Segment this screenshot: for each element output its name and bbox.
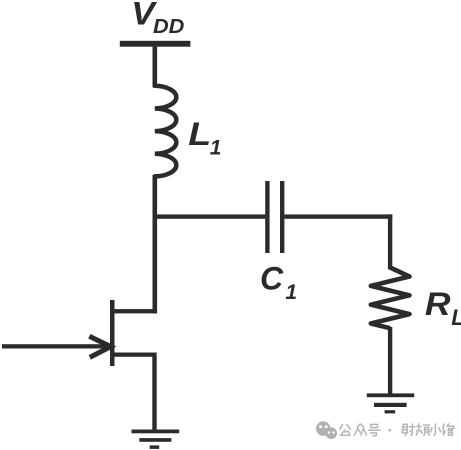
svg-text:L: L <box>188 117 211 153</box>
wire node to capacitor <box>154 214 265 218</box>
glyph 公 <box>340 425 351 436</box>
wire VDD bar to inductor <box>153 47 158 88</box>
node VDD label <box>131 0 184 38</box>
wire source to ground <box>152 353 156 432</box>
label RL <box>425 287 461 330</box>
transistor Q1 channel bar <box>110 300 115 366</box>
inductor L1 <box>155 86 177 177</box>
svg-text:1: 1 <box>210 136 222 159</box>
wire corner down to resistor <box>388 214 392 269</box>
wire inductor to drain corner <box>153 175 158 313</box>
glyph 小 <box>430 424 441 436</box>
transistor Q1 source lead <box>110 353 156 357</box>
capacitor C1 plate left <box>265 181 269 253</box>
power rail VDD bar <box>120 41 191 47</box>
glyph 频 <box>416 424 429 435</box>
wire capacitor to corner <box>284 214 392 218</box>
ground (left, under source) <box>132 430 180 449</box>
svg-text:1: 1 <box>285 281 297 304</box>
capacitor C1 plate right <box>280 181 284 253</box>
glyph 号 <box>369 424 380 435</box>
gate arrowhead <box>89 336 110 357</box>
resistor RL zigzag <box>371 268 410 329</box>
label C1 <box>260 261 297 305</box>
ground (right, under RL) <box>367 393 414 413</box>
watermark text 公众号·射频小馆 (drawn strokes) <box>340 424 454 436</box>
glyph 馆 <box>443 424 454 435</box>
svg-text:DD: DD <box>153 16 184 38</box>
transistor Q1 drain lead <box>110 309 156 313</box>
label L1 <box>188 117 221 160</box>
separator dot <box>389 429 392 432</box>
glyph 众 <box>354 424 366 435</box>
svg-text:L: L <box>451 305 461 330</box>
svg-text:R: R <box>425 287 451 323</box>
svg-text:C: C <box>260 261 284 297</box>
glyph 射 <box>402 424 415 435</box>
wire resistor to ground <box>388 327 392 396</box>
gate input wire <box>2 344 110 348</box>
watermark logo (two overlapping circles) <box>316 421 337 439</box>
